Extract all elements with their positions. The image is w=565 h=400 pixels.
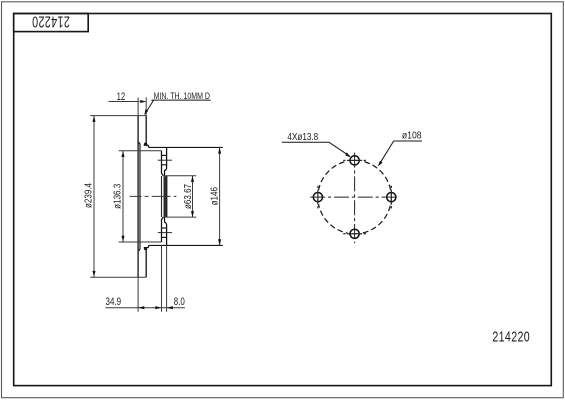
- undercut fillet circle lower: [145, 248, 147, 250]
- hole tick right hole: [390, 186, 392, 209]
- flange left face line through bore: [161, 176, 163, 217]
- flange left face upper: [162, 151, 164, 176]
- hat outer surface bottom + Ø146 extension: [149, 244, 223, 246]
- bolt hole upper edge in flange mirror: [162, 236, 167, 238]
- svg-text:8.0: 8.0: [174, 296, 186, 309]
- bore band edge line: [166, 176, 168, 217]
- bolt hole centerline upper: [158, 159, 172, 161]
- bolt circle dashed Ø108: [318, 160, 391, 233]
- label Ø108 underline: [394, 140, 422, 142]
- label 4XØ13.8 underline: [282, 141, 329, 143]
- dimension Ø146 arrows: [218, 148, 221, 154]
- hat inner surface bottom + Ø136.3 extension: [119, 241, 162, 243]
- bolt hole bottom: [350, 229, 359, 238]
- crosshair vertical: [354, 153, 356, 244]
- hat outer surface top + Ø146 extension: [149, 146, 223, 148]
- bolt hole lower edge in flange mirror: [162, 227, 167, 229]
- bore lower edge + Ø63.67 extension: [163, 216, 196, 218]
- dimension 34.9 / 8.0 line: [106, 307, 185, 309]
- note leader arrow: [144, 109, 148, 115]
- dimension Ø239.4 line: [93, 116, 95, 277]
- dimension 12 arrow: [140, 100, 146, 103]
- hole tick top hole: [343, 159, 366, 161]
- svg-text:ø136.3: ø136.3: [112, 184, 123, 209]
- dimension Ø239.4 arrows: [92, 116, 95, 122]
- leader to top hole: [329, 142, 350, 156]
- bolt hole top: [350, 156, 359, 165]
- dimension Ø63.67 line: [192, 176, 194, 217]
- hole tick left hole: [317, 186, 319, 209]
- title box top-left: [14, 14, 89, 32]
- bore upper edge + Ø63.67 extension: [163, 175, 196, 177]
- mounting face lower: [164, 217, 166, 246]
- bolt hole centerline lower: [158, 232, 172, 234]
- hat inner surface top + Ø136.3 extension: [119, 150, 162, 152]
- dimension Ø136.3 line: [122, 151, 124, 242]
- bolt hole left: [313, 193, 322, 202]
- disc bottom edge + Ø239.4 extension: [90, 276, 146, 278]
- arrow at 161.5 pointing right: [155, 306, 161, 309]
- svg-text:214220: 214220: [492, 327, 530, 344]
- hole tick top hole: [343, 159, 366, 161]
- disc outboard face: [137, 116, 139, 278]
- svg-text:4Xø13.8: 4Xø13.8: [287, 131, 318, 142]
- svg-text:ø63.67: ø63.67: [182, 184, 193, 209]
- extension disc face bottom: [137, 277, 139, 312]
- disc top edge + Ø239.4 extension: [90, 115, 146, 117]
- axis centerline left view: [130, 195, 177, 197]
- bolt hole right: [387, 193, 396, 202]
- extension flange left bottom: [161, 245, 163, 311]
- note underline: [151, 99, 210, 101]
- disc inboard face lower: [144, 245, 148, 277]
- disc inboard face upper: [144, 116, 148, 148]
- dimension 12 line: [109, 101, 140, 103]
- bolt hole upper edge in flange: [162, 154, 167, 156]
- extension line left of 12: [137, 97, 139, 115]
- hole tick bottom hole: [343, 233, 366, 235]
- svg-text:214220: 214220: [32, 13, 70, 30]
- svg-text:ø146: ø146: [209, 187, 220, 205]
- extension mounting face bottom: [166, 245, 168, 311]
- bore band dark fill: [164, 176, 168, 217]
- dimension Ø136.3 arrows: [121, 151, 124, 157]
- dimension Ø63.67 arrows: [191, 176, 194, 182]
- extension line right of 12: [145, 97, 147, 115]
- arrow at 166.6 pointing left: [167, 306, 173, 309]
- mounting face upper: [164, 147, 166, 176]
- svg-text:ø108: ø108: [402, 130, 422, 142]
- flange left face lower: [162, 217, 164, 242]
- crosshair horizontal: [310, 196, 399, 198]
- hole tick left hole: [317, 186, 319, 209]
- arrow at 138.1 pointing left: [138, 306, 144, 309]
- note leader: [146, 100, 154, 113]
- hole tick right hole: [390, 186, 392, 209]
- hole tick bottom hole: [343, 233, 366, 235]
- dimension Ø146 line: [219, 148, 221, 246]
- leader arrow top hole: [345, 152, 351, 157]
- bolt hole lower edge in flange: [162, 164, 167, 166]
- undercut fillet circle upper: [145, 143, 147, 145]
- svg-text:ø239.4: ø239.4: [83, 183, 94, 208]
- center web inboard line: [139, 142, 140, 250]
- bolt hole masks: [311, 153, 399, 241]
- leader arrow bolt circle: [378, 161, 383, 167]
- svg-text:34.9: 34.9: [106, 296, 122, 309]
- leader to bolt circle: [379, 141, 394, 164]
